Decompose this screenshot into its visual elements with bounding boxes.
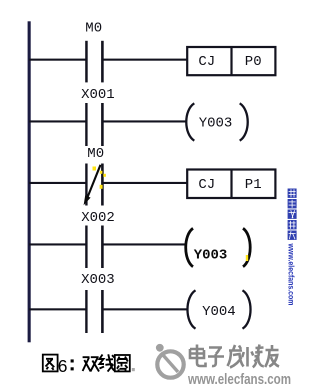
wire rung3 right — [103, 182, 187, 184]
svg-text:6: 6 — [58, 356, 68, 376]
glyph 线 — [100, 354, 115, 371]
coil Y003 (rung2) — [186, 103, 247, 140]
glyph 双 — [83, 357, 99, 371]
svg-text:www.elecfans.com: www.elecfans.com — [187, 372, 291, 388]
友 — [265, 345, 279, 367]
svg-text:X003: X003 — [81, 272, 115, 288]
svg-text:M0: M0 — [87, 146, 104, 162]
caption: 图6：双线圈 — [43, 354, 130, 376]
coil Y003 bold (rung4) — [186, 228, 250, 266]
子 — [208, 348, 224, 367]
svg-text:CJ: CJ — [198, 177, 215, 193]
glyph 圈 — [115, 355, 130, 371]
wire rung1 right — [103, 59, 187, 61]
contact X001 — [85, 103, 104, 146]
watermark logo circle (bottom right, gray) — [156, 344, 184, 378]
svg-text:X002: X002 — [81, 210, 115, 226]
wire rung1 left — [29, 59, 86, 61]
svg-text:M0: M0 — [85, 21, 102, 37]
svg-text:P0: P0 — [245, 54, 262, 70]
发 — [228, 345, 244, 368]
stray gray dot after caption — [132, 368, 135, 371]
svg-text:Y003: Y003 — [194, 247, 228, 263]
wire rung4 left — [29, 243, 86, 245]
coil Y004 (rung5) — [187, 290, 250, 328]
wire rung4 right — [103, 243, 185, 245]
watermark text 电子发烧友 (gray) — [190, 345, 279, 368]
wire rung5 left — [29, 308, 86, 310]
wire rung2 right — [103, 120, 187, 122]
wire rung5 right — [103, 308, 187, 310]
contact M0 falling-edge (rung3) — [84, 164, 104, 206]
contact X003 — [85, 290, 104, 333]
wire rung2 left — [29, 120, 86, 122]
wire rung3 left — [29, 182, 86, 184]
contact X002 — [85, 226, 104, 269]
left power rail — [28, 21, 31, 342]
contact M0 rung1 — [85, 41, 104, 83]
svg-text:Y004: Y004 — [202, 304, 236, 320]
glyph 图 — [43, 355, 58, 372]
svg-text:www.elecfans.com: www.elecfans.com — [287, 243, 297, 306]
function box CJ P0 — [187, 46, 275, 76]
svg-text:X001: X001 — [81, 87, 115, 103]
right edge vertical blue watermark 电子发烧友 blocks — [288, 189, 297, 240]
电 — [190, 345, 206, 367]
svg-text:CJ: CJ — [198, 54, 215, 70]
svg-text:Y003: Y003 — [199, 116, 233, 132]
烧 — [242, 345, 264, 368]
svg-text:P1: P1 — [245, 177, 262, 193]
yellow artifacts near rung3 contact — [93, 167, 106, 189]
function box CJ P1 — [187, 169, 275, 200]
